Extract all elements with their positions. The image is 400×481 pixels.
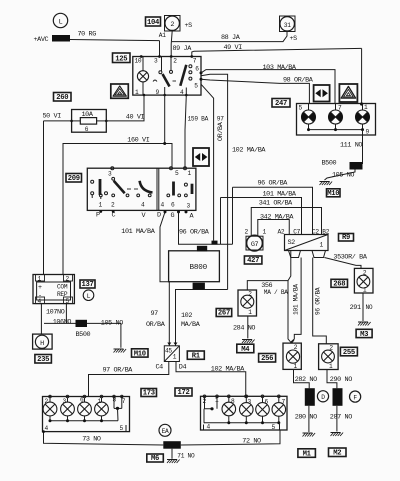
horn H bbox=[33, 334, 53, 349]
switch label 209 bbox=[66, 174, 82, 183]
wire 96 line left end down bbox=[232, 187, 234, 244]
lamps in box 73 bbox=[43, 402, 57, 416]
svg-text:4: 4 bbox=[161, 202, 165, 209]
repeater lamp 267 bbox=[238, 290, 257, 316]
wire 159 BA from pin 5 of 125 bbox=[201, 84, 214, 240]
label 268 bbox=[331, 279, 348, 287]
svg-text:M4: M4 bbox=[241, 346, 250, 354]
svg-text:280 NO: 280 NO bbox=[295, 414, 317, 422]
wire 88 JA bbox=[172, 32, 287, 42]
wire 102 MA/BA horizontal bbox=[176, 290, 228, 346]
label 235 bbox=[35, 355, 52, 364]
pin 2/1 jumper of 72 bbox=[205, 396, 213, 409]
label R9 bbox=[339, 234, 354, 242]
svg-text:G7: G7 bbox=[251, 241, 259, 249]
svg-text:B800: B800 bbox=[190, 264, 208, 272]
fuse 10A bbox=[72, 110, 107, 133]
wire 97 OR/BA to left lamp cluster bbox=[89, 362, 169, 397]
label 172 bbox=[175, 388, 192, 396]
svg-text:C4: C4 bbox=[156, 364, 164, 372]
lamps in box 72 bbox=[222, 402, 236, 416]
svg-text:73 NO: 73 NO bbox=[82, 436, 101, 444]
wire 111 NO bbox=[362, 130, 364, 164]
headlamp symbol box bbox=[111, 84, 129, 98]
svg-text:F: F bbox=[353, 394, 357, 401]
wire 287 NO to ground M2 bbox=[336, 406, 338, 432]
wire 342 MA/BA G7 to S2 bbox=[258, 220, 289, 236]
ground M6 bbox=[171, 449, 173, 459]
svg-text:256: 256 bbox=[261, 355, 273, 363]
lamp inside 125 bbox=[137, 71, 148, 82]
svg-text:MA/BA: MA/BA bbox=[181, 321, 201, 329]
direction indicator symbol box right of 209 bbox=[193, 148, 209, 166]
svg-text:+: + bbox=[38, 284, 42, 292]
svg-text:B500: B500 bbox=[322, 160, 337, 168]
label 255 bbox=[340, 347, 357, 356]
svg-text:70 RG: 70 RG bbox=[78, 31, 97, 39]
svg-text:7: 7 bbox=[122, 398, 126, 405]
wire 105 NO to ground M10 bbox=[325, 170, 356, 181]
svg-text:M1: M1 bbox=[303, 451, 312, 459]
side lamp 256 bbox=[283, 343, 301, 369]
svg-text:255: 255 bbox=[343, 349, 355, 357]
svg-text:104: 104 bbox=[147, 19, 160, 27]
svg-text:353OR/ BA: 353OR/ BA bbox=[333, 253, 367, 261]
side lamp 255 bbox=[319, 344, 339, 370]
label 267 bbox=[216, 309, 232, 317]
svg-text:2: 2 bbox=[66, 275, 70, 282]
label M4 bbox=[237, 344, 254, 353]
wire 353 OR/BA bbox=[324, 258, 361, 269]
svg-text:9: 9 bbox=[366, 129, 370, 136]
svg-text:40 VI: 40 VI bbox=[126, 114, 145, 122]
svg-text:+AVC: +AVC bbox=[34, 36, 49, 44]
svg-text:173: 173 bbox=[143, 390, 155, 398]
svg-text:D: D bbox=[321, 394, 325, 401]
svg-text:1: 1 bbox=[363, 287, 367, 294]
label R1 bbox=[187, 351, 204, 359]
svg-text:1: 1 bbox=[135, 89, 139, 96]
svg-text:5: 5 bbox=[175, 170, 179, 177]
svg-text:102 MA/BA: 102 MA/BA bbox=[232, 147, 266, 155]
wire 290 NO bbox=[327, 370, 337, 389]
svg-text:COM: COM bbox=[57, 284, 68, 291]
svg-text:105 NO: 105 NO bbox=[332, 172, 354, 180]
label 256 bbox=[259, 354, 276, 363]
svg-text:OR/BA: OR/BA bbox=[146, 321, 166, 329]
svg-text:3: 3 bbox=[108, 171, 112, 178]
switch internals right section of 209 bbox=[172, 182, 175, 196]
indicator lamps in 247 bbox=[302, 110, 316, 124]
svg-text:EA: EA bbox=[162, 428, 169, 435]
svg-text:D4: D4 bbox=[179, 364, 187, 372]
lamp cluster box 72 bbox=[201, 396, 288, 430]
supply terminal 2 +S bbox=[165, 16, 181, 32]
svg-text:284 NO: 284 NO bbox=[233, 325, 255, 333]
svg-text:50 VI: 50 VI bbox=[43, 113, 62, 121]
label M2 bbox=[329, 448, 347, 457]
wire from S2 foot 101 MA/BA bbox=[292, 258, 302, 344]
lamp cluster box 73 bbox=[43, 397, 130, 432]
svg-text:+S: +S bbox=[290, 35, 298, 43]
svg-text:103 MA/BA: 103 MA/BA bbox=[263, 64, 297, 72]
svg-text:290 NO: 290 NO bbox=[330, 376, 352, 384]
wire 102 MA/BA to right lamp cluster bbox=[176, 362, 246, 397]
svg-text:G: G bbox=[171, 212, 175, 220]
svg-text:49 VI: 49 VI bbox=[224, 44, 243, 52]
svg-text:159 BA: 159 BA bbox=[188, 116, 209, 123]
hazard symbol box bbox=[339, 84, 357, 102]
connector F bbox=[350, 391, 361, 402]
svg-text:R1: R1 bbox=[192, 353, 201, 361]
wire from 101 line left end bbox=[220, 198, 222, 245]
svg-text:1: 1 bbox=[248, 309, 252, 316]
suppressor resistor left bbox=[305, 388, 315, 406]
svg-text:L: L bbox=[59, 19, 63, 27]
svg-text:101 MA/BA: 101 MA/BA bbox=[263, 190, 297, 198]
svg-text:A1: A1 bbox=[159, 32, 166, 39]
svg-text:107NO: 107NO bbox=[46, 309, 65, 317]
lighting switch box 125 bbox=[133, 57, 201, 96]
svg-text:2: 2 bbox=[170, 21, 174, 29]
wire 282 NO bbox=[294, 369, 310, 388]
svg-text:L: L bbox=[87, 293, 91, 300]
svg-text:209: 209 bbox=[68, 175, 80, 183]
junction box B800 bbox=[169, 251, 220, 282]
svg-text:72 NO: 72 NO bbox=[242, 438, 261, 446]
switch contact 1 inside 125 bbox=[161, 57, 163, 71]
pin circles top of 209 bbox=[111, 167, 114, 170]
svg-text:291: 291 bbox=[350, 304, 361, 312]
svg-text:125: 125 bbox=[115, 56, 127, 64]
svg-text:3: 3 bbox=[187, 203, 191, 210]
wire 356 branch down to 256 bbox=[288, 281, 292, 344]
svg-text:10: 10 bbox=[135, 58, 142, 65]
wire 103 MA/BA bbox=[201, 70, 335, 104]
clock symbol L bbox=[53, 13, 67, 27]
box 247 bbox=[297, 104, 376, 136]
wire to box 72 pin 5 bbox=[181, 430, 280, 445]
pin terminal dots on top edge bbox=[140, 55, 143, 58]
svg-text:REP: REP bbox=[57, 291, 68, 298]
svg-text:172: 172 bbox=[177, 389, 189, 397]
svg-text:5: 5 bbox=[194, 83, 198, 90]
svg-text:102 MA/BA: 102 MA/BA bbox=[211, 365, 245, 373]
bus inside 73 bbox=[49, 416, 51, 421]
wire 50 VI down to COM/REP pin 1 bbox=[43, 121, 45, 275]
label M10 left bbox=[132, 349, 149, 357]
svg-text:45: 45 bbox=[165, 347, 172, 354]
svg-text:1: 1 bbox=[38, 275, 42, 282]
svg-text:1: 1 bbox=[99, 202, 103, 209]
svg-text:MA / BA: MA / BA bbox=[264, 289, 288, 296]
svg-text:427: 427 bbox=[247, 257, 259, 265]
wire 89 JA from terminal 2 bbox=[171, 31, 172, 57]
svg-text:98 OR/BA: 98 OR/BA bbox=[283, 76, 314, 84]
svg-text:9: 9 bbox=[156, 89, 160, 96]
svg-text:4: 4 bbox=[180, 89, 184, 96]
ground M10 left bbox=[114, 348, 124, 350]
svg-text:267: 267 bbox=[218, 310, 230, 318]
svg-text:6: 6 bbox=[85, 126, 89, 133]
svg-text:M6: M6 bbox=[151, 455, 159, 463]
svg-text:105 NO: 105 NO bbox=[101, 319, 123, 327]
label 173 bbox=[141, 389, 157, 397]
svg-text:96 OR/BA: 96 OR/BA bbox=[258, 180, 289, 188]
svg-text:101 MA/BA: 101 MA/BA bbox=[293, 284, 300, 315]
label M1 bbox=[298, 449, 316, 458]
svg-text:OR/BA: OR/BA bbox=[217, 121, 225, 141]
splice B500 right bbox=[350, 162, 363, 170]
svg-text:5: 5 bbox=[120, 425, 124, 432]
svg-text:5: 5 bbox=[272, 424, 276, 431]
clock symbol small L bbox=[83, 290, 94, 301]
svg-text:M3: M3 bbox=[360, 331, 368, 339]
B800 top connector bbox=[197, 246, 207, 252]
switch unit label 125 bbox=[113, 53, 131, 63]
wire 280 NO to ground M1 bbox=[308, 406, 310, 432]
svg-text:6: 6 bbox=[171, 202, 175, 209]
svg-text:6: 6 bbox=[195, 66, 199, 73]
svg-text:1: 1 bbox=[188, 170, 192, 177]
wire 96 OR/BA from pin G of 209 bbox=[179, 212, 233, 244]
wire 356 MA/BA bbox=[247, 251, 290, 291]
wire to pin 3 of 125 bbox=[159, 41, 161, 57]
switch internals left section of 209 bbox=[91, 180, 94, 183]
svg-text:88 JA: 88 JA bbox=[221, 34, 241, 42]
svg-text:111 NO: 111 NO bbox=[340, 142, 362, 150]
wire from S2 foot 96 OR/BA bbox=[313, 258, 327, 344]
wire 341 OR/BA G7 to S2 bbox=[251, 208, 321, 237]
B800 bottom connector bbox=[193, 283, 205, 290]
svg-text:1: 1 bbox=[329, 363, 333, 370]
wire 96 OR/BA to S2 pin C2 bbox=[233, 187, 313, 234]
wire 49 VI bbox=[192, 48, 362, 56]
junction of pin 9 wire with 160 VI bbox=[164, 95, 166, 144]
svg-text:1: 1 bbox=[173, 353, 177, 360]
bottom pin stubs of 125 bbox=[143, 94, 146, 97]
svg-text:M10: M10 bbox=[327, 190, 339, 198]
wire 284 NO to ground M4 bbox=[247, 316, 249, 338]
svg-text:342 MA/BA: 342 MA/BA bbox=[260, 213, 294, 221]
svg-text:260: 260 bbox=[56, 94, 68, 102]
svg-text:7: 7 bbox=[193, 58, 197, 65]
svg-text:282 NO: 282 NO bbox=[295, 376, 317, 384]
svg-text:102: 102 bbox=[181, 312, 192, 320]
svg-text:-: - bbox=[38, 292, 42, 300]
fuse holder label 104 bbox=[146, 17, 161, 26]
wire 97 OR/BA vertical bbox=[201, 74, 228, 289]
resistor 71 NO bbox=[163, 441, 181, 449]
svg-text:89 JA: 89 JA bbox=[173, 45, 193, 53]
svg-text:31: 31 bbox=[284, 22, 291, 29]
svg-text:137: 137 bbox=[81, 281, 93, 289]
svg-text:NO: NO bbox=[366, 304, 373, 311]
label M3 bbox=[356, 329, 372, 337]
svg-text:4: 4 bbox=[45, 425, 49, 432]
wire 101 MA/BA to S2 pin C7 bbox=[221, 198, 302, 235]
repeater lamp 268 bbox=[354, 268, 373, 293]
svg-text:97: 97 bbox=[151, 310, 159, 318]
supply terminal 31 +S bbox=[280, 16, 296, 32]
svg-text:P: P bbox=[96, 212, 100, 220]
svg-text:2: 2 bbox=[245, 229, 249, 236]
connector EA bbox=[159, 424, 171, 436]
svg-text:106NO: 106NO bbox=[53, 319, 72, 327]
svg-text:D: D bbox=[157, 212, 161, 220]
label 427 bbox=[244, 256, 262, 264]
svg-text:2: 2 bbox=[173, 58, 177, 65]
wire 98 OR/BA bbox=[201, 79, 309, 103]
svg-text:96 OR/BA: 96 OR/BA bbox=[315, 287, 322, 315]
svg-text:5: 5 bbox=[299, 105, 303, 112]
splice B500 left bbox=[76, 320, 88, 327]
svg-text:R9: R9 bbox=[342, 234, 350, 242]
svg-text:B500: B500 bbox=[76, 331, 91, 339]
svg-text:+S: +S bbox=[185, 22, 193, 30]
switch contact 2 inside 125 bbox=[180, 65, 186, 86]
bus wire pin 9 of 247 bbox=[308, 124, 310, 130]
svg-text:A2: A2 bbox=[278, 228, 285, 235]
direction indicator symbol box bbox=[314, 85, 330, 102]
svg-text:1: 1 bbox=[320, 242, 324, 249]
svg-text:H: H bbox=[40, 340, 44, 348]
svg-text:97 OR/BA: 97 OR/BA bbox=[103, 367, 134, 375]
cluster label 247 bbox=[272, 99, 290, 108]
svg-text:97: 97 bbox=[217, 116, 224, 123]
svg-text:247: 247 bbox=[275, 100, 287, 108]
connector D bbox=[317, 391, 328, 402]
svg-text:4: 4 bbox=[141, 202, 145, 209]
svg-text:1: 1 bbox=[98, 398, 102, 405]
fuse box label 260 bbox=[54, 93, 72, 102]
svg-text:2: 2 bbox=[111, 202, 115, 209]
splice on 96 wire bbox=[212, 241, 218, 245]
svg-text:1: 1 bbox=[294, 363, 298, 370]
svg-text:235: 235 bbox=[37, 356, 49, 364]
wire 101 MA/BA from pin D of 209 bbox=[160, 212, 169, 282]
svg-text:341 OR/BA: 341 OR/BA bbox=[259, 199, 293, 207]
wire 291 NO to ground M3 bbox=[362, 293, 364, 321]
suppressor resistor right bbox=[333, 388, 343, 406]
svg-text:71 NO: 71 NO bbox=[177, 453, 195, 460]
column switch box 209 bbox=[87, 168, 196, 210]
wire 105 NO to ground M10 bbox=[87, 323, 121, 347]
wire 106NO to splice B500 bbox=[65, 304, 67, 324]
svg-text:M2: M2 bbox=[333, 450, 341, 458]
svg-text:96 OR/BA: 96 OR/BA bbox=[179, 229, 210, 237]
relay feet connectors bbox=[289, 251, 301, 258]
wire 49 VI down right side to 247 pin 1 bbox=[361, 48, 363, 104]
bus inside 72 bbox=[204, 422, 280, 424]
svg-text:101 MA/BA: 101 MA/BA bbox=[121, 228, 155, 236]
svg-text:3: 3 bbox=[154, 58, 158, 65]
svg-text:S2: S2 bbox=[288, 239, 296, 247]
svg-text:4: 4 bbox=[207, 424, 211, 431]
svg-text:M10: M10 bbox=[134, 350, 146, 358]
label 137 bbox=[80, 280, 95, 288]
flasher unit COM REP bbox=[33, 275, 74, 304]
wire 97 OR/BA down left of B800 bbox=[168, 282, 170, 346]
ground M10 right bbox=[320, 181, 330, 183]
wire from pin 4 of 125 to pin 1 of 209 bbox=[185, 95, 186, 168]
svg-text:1: 1 bbox=[263, 229, 267, 236]
svg-text:287 NO: 287 NO bbox=[330, 414, 352, 422]
svg-text:268: 268 bbox=[333, 281, 345, 289]
connector 45 C4/D4 bbox=[167, 343, 171, 346]
ground label M10 bbox=[327, 189, 341, 197]
